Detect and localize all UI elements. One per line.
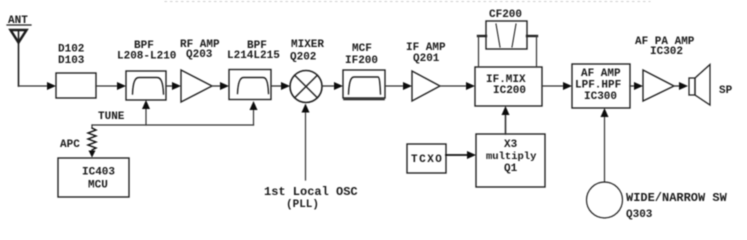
IF.MIX IC200 box <box>475 67 542 106</box>
capacitor filter CF200 <box>478 9 537 67</box>
antenna ANT <box>7 15 31 86</box>
svg-text:APC: APC <box>60 139 80 151</box>
svg-text:WIDE/NARROW SW: WIDE/NARROW SW <box>626 191 728 205</box>
svg-text:AF AMP: AF AMP <box>581 68 621 80</box>
svg-text:IC200: IC200 <box>493 85 526 97</box>
svg-text:SP: SP <box>719 85 733 97</box>
speaker SP <box>689 65 733 106</box>
svg-text:1st Local OSC: 1st Local OSC <box>264 185 358 199</box>
wire X3 multiply to IF.MIX <box>502 106 510 134</box>
transistor switch WIDE/NARROW SW Q303 <box>587 182 728 221</box>
AF AMP LPF.HPF IC300 box <box>572 64 630 108</box>
wire IF.MIX to AF AMP <box>542 82 572 90</box>
svg-text:Q1: Q1 <box>504 163 518 175</box>
svg-text:X3: X3 <box>504 139 518 151</box>
wire WIDE/NARROW SW to AF AMP <box>601 108 609 182</box>
svg-text:Q203: Q203 <box>186 49 213 61</box>
svg-text:CF200: CF200 <box>489 9 522 21</box>
svg-text:LPF.HPF: LPF.HPF <box>575 80 621 92</box>
wire AF AMP to AF PA AMP <box>630 82 643 90</box>
svg-text:D103: D103 <box>58 55 85 67</box>
node 1st Local OSC (PLL) <box>264 185 358 211</box>
svg-text:MCU: MCU <box>88 180 108 192</box>
wire BPF to RF AMP <box>166 82 181 90</box>
svg-text:Q201: Q201 <box>413 53 440 65</box>
wire mixer to MCF <box>322 82 343 90</box>
wire BPF2 to mixer <box>271 82 290 90</box>
svg-text:D102: D102 <box>58 44 84 56</box>
svg-text:MCF: MCF <box>352 43 372 55</box>
op-amp IF AMP Q201 <box>406 42 446 101</box>
wire AF PA AMP to speaker <box>674 82 688 90</box>
svg-text:IC302: IC302 <box>650 46 683 58</box>
svg-text:IF200: IF200 <box>345 55 378 67</box>
wire RF AMP to BPF2 <box>212 82 229 90</box>
mixer Q202 <box>290 39 324 103</box>
svg-text:TUNE: TUNE <box>98 111 125 123</box>
svg-text:TCXO: TCXO <box>411 154 443 166</box>
wire TCXO to X3 multiply <box>446 151 476 159</box>
wire MCF to IF AMP <box>385 82 412 90</box>
BPF L208-L210 <box>117 40 176 100</box>
wire D102 box to BPF <box>96 82 126 90</box>
IC403 MCU box <box>58 158 129 197</box>
svg-text:(PLL): (PLL) <box>286 199 319 211</box>
wire antenna to D102 <box>19 82 57 90</box>
op-amp RF AMP Q203 <box>180 39 220 102</box>
node TUNE wire <box>92 100 258 125</box>
wire IF AMP to IF.MIX <box>440 82 475 90</box>
MCF IF200 <box>343 43 385 100</box>
svg-text:Q303: Q303 <box>626 209 653 221</box>
op-amp AF PA AMP IC302 <box>635 36 695 101</box>
svg-text:IC403: IC403 <box>82 167 115 179</box>
TCXO box <box>407 144 446 173</box>
diode box D102 D103 <box>56 44 96 99</box>
wire 1st local OSC to mixer <box>302 104 310 181</box>
svg-text:multiply: multiply <box>486 151 537 163</box>
svg-text:L214L215: L214L215 <box>227 50 280 62</box>
resistor APC <box>60 125 96 158</box>
svg-text:L208-L210: L208-L210 <box>117 51 176 63</box>
svg-text:IC300: IC300 <box>584 91 617 103</box>
svg-text:MIXER: MIXER <box>291 39 324 51</box>
svg-text:Q202: Q202 <box>290 52 316 64</box>
BPF L214L215 <box>227 40 280 100</box>
X3 multiply Q1 box <box>476 134 545 187</box>
